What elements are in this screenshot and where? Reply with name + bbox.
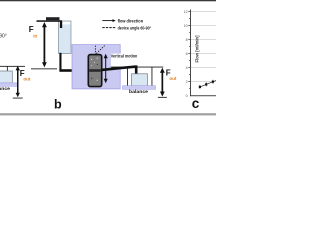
- svg-text:12: 12: [184, 10, 188, 14]
- svg-text:10: 10: [184, 24, 188, 28]
- svg-text:8: 8: [186, 38, 188, 42]
- svg-text:Flow [ml/min]: Flow [ml/min]: [194, 35, 199, 63]
- svg-text:c: c: [192, 96, 200, 111]
- svg-text:2: 2: [186, 80, 188, 84]
- svg-text:device angle 60-90°: device angle 60-90°: [118, 25, 152, 30]
- svg-text:balance: balance: [129, 89, 148, 94]
- svg-text:4: 4: [186, 66, 188, 70]
- svg-text:0: 0: [186, 94, 188, 98]
- svg-text:balance: balance: [0, 86, 10, 91]
- svg-text:90°: 90°: [0, 34, 7, 40]
- svg-text:Vertical motion: Vertical motion: [111, 54, 138, 59]
- svg-text:out: out: [23, 76, 30, 81]
- svg-text:F: F: [29, 25, 34, 34]
- svg-text:flow direction: flow direction: [118, 18, 144, 23]
- svg-text:6: 6: [186, 52, 188, 56]
- svg-text:b: b: [54, 97, 62, 111]
- svg-text:in: in: [33, 34, 37, 39]
- svg-text:out: out: [169, 76, 176, 81]
